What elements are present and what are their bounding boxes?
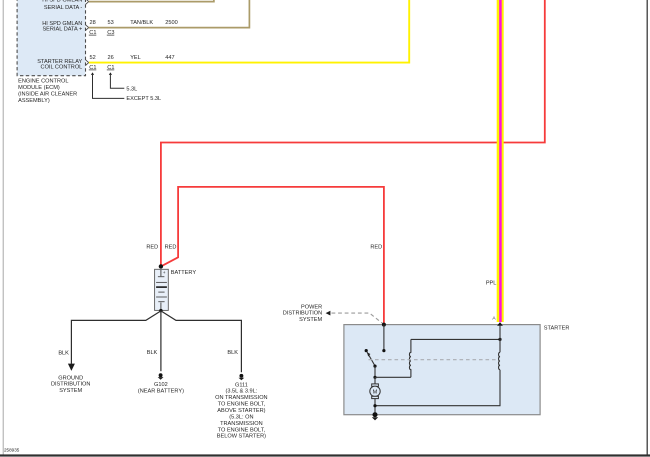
svg-text:(3.5L & 3.9L:: (3.5L & 3.9L:: [225, 389, 257, 395]
dashed tie line to power distribution: [332, 313, 383, 324]
svg-text:ON TRANSMISSION: ON TRANSMISSION: [215, 395, 267, 401]
svg-text:BLK: BLK: [58, 351, 69, 357]
diagram bottom bar: [0, 454, 650, 456]
ground G102 symbol: [159, 373, 163, 377]
svg-text:RED: RED: [146, 245, 158, 251]
svg-text:52: 52: [90, 55, 96, 61]
wire PPL (magenta core): [499, 0, 502, 322]
wire coil 2 to motor bottom: [375, 370, 500, 406]
svg-text:BATTERY: BATTERY: [171, 270, 197, 276]
junction terminal A: [498, 338, 501, 341]
svg-text:HI SPD GMLAN: HI SPD GMLAN: [42, 0, 82, 4]
svg-text:STARTER: STARTER: [544, 325, 570, 331]
svg-text:A: A: [492, 316, 496, 322]
arrow to power distribution system: [326, 311, 331, 316]
starter box: [344, 325, 540, 415]
contact node (B+ end): [382, 349, 385, 352]
svg-text:MODULE (ECM): MODULE (ECM): [18, 85, 60, 91]
contact node (left fixed): [365, 349, 368, 352]
svg-text:COIL CONTROL: COIL CONTROL: [41, 65, 83, 71]
svg-text:5.3L: 5.3L: [126, 86, 137, 92]
svg-text:(NEAR BATTERY): (NEAR BATTERY): [138, 389, 184, 395]
junction motor bottom: [373, 404, 376, 407]
wire BLK (center branch to G102): [160, 311, 162, 371]
5.3L callout arrow (right, under C1): [109, 72, 112, 75]
svg-text:TO ENGINE BOLT,: TO ENGINE BOLT,: [218, 427, 266, 433]
wire TAN/BLK 2500 (row 2): [89, 0, 250, 28]
svg-text:G111: G111: [235, 382, 248, 388]
wire terminal A down: [499, 326, 501, 353]
ECM module box (Engine Control Module, dashed, cut off at top): [17, 0, 85, 76]
svg-text:YEL: YEL: [130, 55, 141, 61]
motor M: [374, 377, 376, 384]
wire BLK (right branch to G111): [161, 311, 242, 372]
junction motor top: [373, 376, 376, 379]
svg-text:+: +: [163, 271, 166, 276]
solenoid switch blade: [367, 352, 375, 366]
starter case ground symbol: [372, 417, 378, 420]
chevron at ECM exit row 1: [86, 0, 89, 4]
wire coil top to terminal A node: [411, 338, 500, 340]
svg-text:(INSIDE AIR CLEANER: (INSIDE AIR CLEANER: [18, 92, 77, 98]
blade pivot junction: [373, 365, 376, 368]
svg-text:BLK: BLK: [227, 350, 238, 356]
arrow to ground distribution system: [68, 364, 75, 371]
svg-text:RED: RED: [370, 245, 382, 251]
wire YEL 447 (row 3): [89, 0, 409, 63]
wire BLK (left branch to ground distribution): [71, 311, 160, 364]
svg-text:ASSEMBLY): ASSEMBLY): [18, 98, 50, 104]
svg-text:DISTRIBUTION: DISTRIBUTION: [51, 382, 90, 388]
svg-text:TAN/BLK: TAN/BLK: [130, 20, 153, 26]
svg-text:RED: RED: [165, 245, 177, 251]
wire junction to pull-in coil: [375, 376, 411, 378]
svg-text:SYSTEM: SYSTEM: [59, 388, 82, 394]
svg-text:TO ENGINE BOLT,: TO ENGINE BOLT,: [218, 402, 266, 408]
svg-text:53: 53: [108, 20, 114, 26]
svg-text:BLK: BLK: [147, 350, 158, 356]
svg-text:G102: G102: [154, 382, 168, 388]
wire pivot to motor junction: [374, 366, 376, 377]
hold-in coil (solenoid winding 2): [499, 352, 500, 369]
svg-text:GROUND: GROUND: [58, 375, 83, 381]
svg-text:TRANSMISSION: TRANSMISSION: [220, 421, 263, 427]
svg-text:ENGINE CONTROL: ENGINE CONTROL: [18, 79, 68, 85]
svg-text:(5.3L: ON: (5.3L: ON: [229, 414, 253, 420]
svg-text:ABOVE STARTER): ABOVE STARTER): [217, 408, 265, 414]
svg-text:BELOW STARTER): BELOW STARTER): [217, 434, 266, 440]
wire PPL highlighted (yellow halo): [497, 0, 504, 322]
terminal A arrow: [497, 322, 503, 326]
svg-text:SYSTEM: SYSTEM: [299, 317, 322, 323]
starter case ground junction: [373, 412, 378, 417]
EXCEPT 5.3L callout arrow (left, under C1): [91, 72, 94, 75]
pull-in coil (solenoid winding 1): [409, 339, 410, 377]
chevron at ECM exit row 2: [86, 25, 89, 30]
svg-text:M: M: [373, 389, 378, 395]
battery: [155, 269, 169, 310]
battery negative terminal junction: [159, 309, 162, 312]
diagram left border: [2, 0, 4, 455]
svg-text:447: 447: [165, 55, 174, 61]
junction red wire at starter box: [382, 323, 386, 327]
svg-text:DISTRIBUTION: DISTRIBUTION: [283, 311, 322, 317]
svg-text:EXCEPT 5.3L: EXCEPT 5.3L: [126, 96, 161, 102]
diagram right border: [646, 0, 648, 455]
svg-text:POWER: POWER: [301, 304, 322, 310]
svg-text:PPL: PPL: [486, 280, 497, 286]
wire RED (battery to starter B+): [161, 187, 384, 324]
svg-text:28: 28: [90, 20, 96, 26]
wire B+ feed inside starter: [383, 325, 385, 351]
wire TAN serial data - (row 1): [89, 0, 214, 2]
svg-text:258935: 258935: [4, 448, 20, 453]
ground G111 symbol: [239, 374, 243, 378]
svg-text:SERIAL DATA +: SERIAL DATA +: [42, 27, 82, 33]
wire RED (battery feed from top right): [161, 0, 545, 265]
junction battery positive: [159, 264, 163, 268]
svg-text:2500: 2500: [165, 20, 177, 26]
svg-text:SERIAL DATA -: SERIAL DATA -: [44, 5, 83, 11]
chevron at ECM exit row 3: [86, 60, 89, 65]
mechanical linkage (dashed): [369, 359, 498, 361]
svg-text:26: 26: [108, 55, 114, 61]
